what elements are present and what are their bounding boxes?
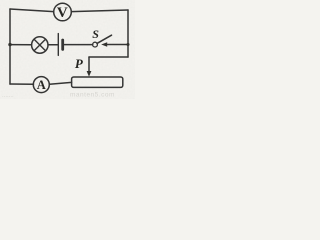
lamp L1 cross — [34, 39, 45, 50]
slider P arrowhead — [87, 71, 92, 77]
svg-text:S: S — [92, 27, 99, 41]
scan grain texture — [0, 0, 135, 99]
wire: bottom-left horizontal (left corner to ammeter) — [10, 83, 34, 85]
lamp L1 circle — [32, 37, 48, 53]
svg-text:V: V — [57, 5, 68, 21]
svg-text:A: A — [37, 78, 46, 92]
svg-text:manten5.com: manten5.com — [70, 92, 115, 99]
rheostat R1 body — [72, 77, 123, 87]
wire: right vertical — [127, 10, 129, 57]
svg-text:.......: ....... — [2, 93, 14, 99]
wire: lamp to battery — [48, 44, 58, 46]
paper background — [0, 0, 135, 99]
switch S pivot circle — [93, 42, 98, 47]
wire: battery to switch — [64, 44, 93, 46]
wire: slider stem vertical — [88, 57, 90, 72]
junction node dot left — [8, 43, 11, 46]
battery B1 long plate — [57, 34, 59, 56]
wire: ammeter to rheostat — [50, 82, 72, 84]
wire: top-right horizontal (voltmeter to right corner) — [72, 10, 129, 12]
wire: left vertical — [9, 9, 11, 84]
wire: top-left horizontal (left corner to voltmeter) — [10, 9, 54, 12]
wire: middle left (node A to lamp) — [10, 44, 32, 46]
junction node dot right — [127, 43, 130, 46]
switch S fixed contact wedge — [101, 42, 107, 46]
svg-text:P: P — [75, 56, 84, 71]
wire: switch to right vertical — [105, 44, 129, 46]
voltmeter U1 circle — [54, 3, 72, 21]
battery B1 short plate — [61, 40, 64, 49]
switch S blade — [97, 35, 112, 43]
ammeter A1 circle — [33, 77, 49, 93]
wire: lower-right horizontal (right vertical to slider stem) — [89, 56, 128, 58]
